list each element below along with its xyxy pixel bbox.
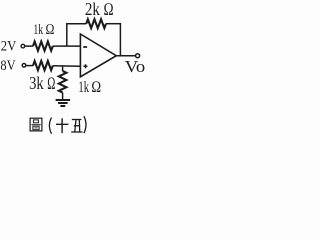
svg-text:2kΩ: 2kΩ	[85, 0, 114, 19]
resistor R4 2k zigzag	[86, 19, 106, 28]
wire feedback top right	[106, 23, 120, 25]
wire R2 to op-amp noninverting input	[53, 65, 81, 67]
wire feedback top left	[66, 23, 86, 25]
terminal 8V	[22, 64, 26, 68]
caption char five	[71, 120, 82, 133]
ground symbol	[56, 100, 71, 106]
svg-text:3kΩ: 3kΩ	[29, 73, 55, 93]
op-amp inverting pin minus sign	[83, 46, 87, 48]
terminal 2V	[21, 44, 25, 48]
wire feedback vertical left	[66, 24, 68, 46]
op-amp noninverting pin plus sign	[84, 64, 88, 68]
svg-text:8V: 8V	[0, 58, 15, 74]
wire R3 to ground	[62, 93, 64, 99]
svg-text:Vo: Vo	[125, 57, 145, 76]
wire op-amp output	[116, 55, 135, 57]
svg-text:2V: 2V	[1, 38, 17, 54]
resistor R1 1k zigzag	[33, 42, 53, 51]
caption figure fifteen	[30, 116, 86, 134]
terminal Vo output	[136, 54, 140, 58]
wire 8V terminal to R2	[26, 65, 33, 67]
op-amp U1 triangle	[80, 34, 116, 77]
caption open paren	[49, 118, 51, 134]
wire feedback vertical right to output	[119, 23, 121, 56]
caption char tu (figure)	[30, 118, 42, 131]
resistor R3 1k vertical zigzag	[59, 71, 67, 93]
caption close paren	[84, 116, 86, 133]
caption char ten	[56, 118, 68, 133]
wire 2V terminal to R1	[25, 45, 33, 47]
wire R1 to op-amp inverting input	[53, 45, 81, 47]
wire junction to grounded resistor stub	[62, 66, 64, 71]
resistor R2 3k zigzag	[33, 61, 53, 70]
